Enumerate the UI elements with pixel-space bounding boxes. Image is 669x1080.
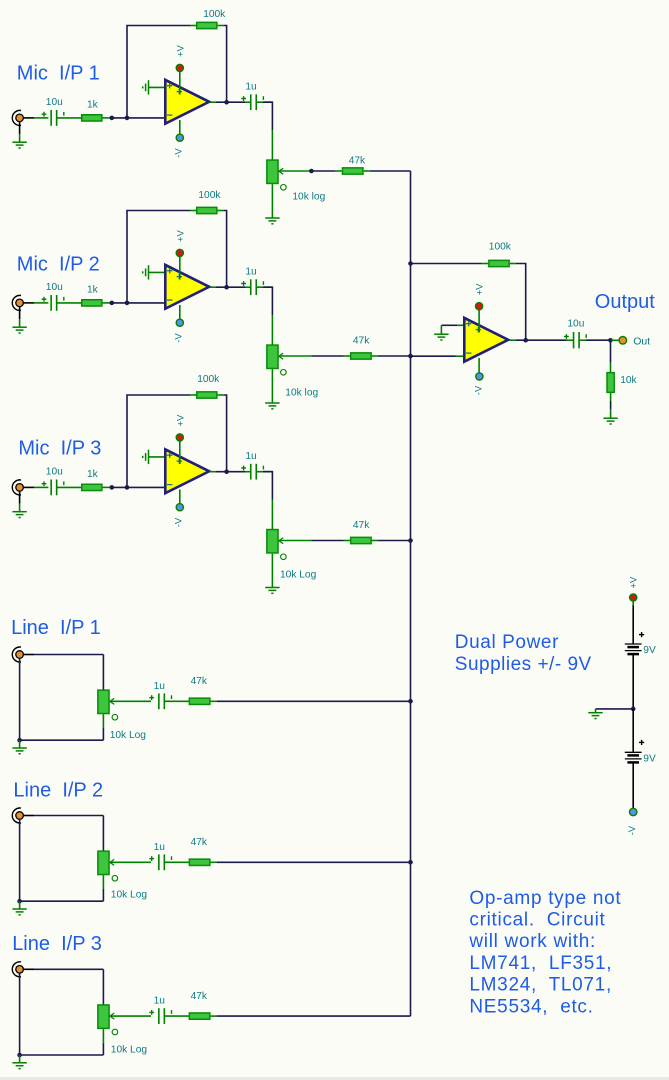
svg-text:100k: 100k: [203, 9, 226, 20]
terminal marker VR5 wiper: [112, 875, 118, 881]
wire ground stub: [19, 1055, 21, 1062]
wire R2 to op-amp U2 inverting input: [103, 302, 112, 304]
wire feedback right side to output: [218, 25, 224, 27]
label battery B2 polarity +: [639, 741, 644, 743]
junction dot bus / output feedback: [408, 261, 413, 266]
junction dot U1 output / feedback: [224, 100, 229, 105]
svg-text:critical. Circuit: critical. Circuit: [469, 910, 605, 931]
wire R14 to ground: [610, 393, 612, 401]
svg-text:1k: 1k: [87, 469, 99, 480]
wire ground to U4 non-inverting input: [441, 324, 457, 326]
wire -V supply from U1: [179, 120, 181, 138]
wire VR4 wiper to C7: [110, 700, 151, 702]
connector J3 mic input jack: [12, 480, 21, 495]
wire -V supply from U4: [478, 358, 480, 376]
svg-text:47k: 47k: [191, 676, 208, 687]
svg-text:-V: -V: [474, 385, 485, 395]
connector Out: [619, 337, 627, 345]
capacitor C10 10u output: [573, 332, 575, 348]
ground R14: [603, 417, 617, 419]
wire ground stub: [19, 740, 21, 747]
wire VR3 wiper to R6: [279, 540, 312, 542]
power +V terminal U3: [176, 434, 183, 441]
junction dot on inverting node: [110, 485, 115, 490]
terminal marker VR1 wiper: [281, 185, 287, 191]
wire R7 to mix bus: [211, 700, 217, 702]
svg-text:1k: 1k: [87, 100, 99, 111]
wire +V supply to U1: [179, 68, 181, 95]
terminal marker VR6 wiper: [112, 1029, 118, 1035]
svg-text:10u: 10u: [46, 282, 63, 293]
power -V terminal U2: [176, 319, 183, 326]
svg-text:10u: 10u: [567, 319, 584, 330]
window edge bottom: [0, 1077, 669, 1080]
svg-text:Line I/P 3: Line I/P 3: [12, 933, 102, 955]
ground U4 non-inverting input: [434, 333, 448, 335]
capacitor C3 10u: [50, 480, 52, 496]
wire VR5 bottom to ground rail: [102, 875, 104, 889]
ground VR3: [265, 587, 279, 589]
resistor R14 10k output load: [607, 373, 614, 393]
wire C7 to R7: [164, 700, 188, 702]
junction dot on inverting node: [110, 116, 115, 121]
svg-text:+V: +V: [176, 44, 187, 57]
op-amp U4 output mixer: [464, 318, 508, 362]
ground J5: [12, 908, 26, 910]
resistor R13 100k output feedback: [489, 260, 509, 266]
junction dot jack ground: [17, 899, 22, 904]
wire R4 to mix bus: [364, 170, 370, 172]
wire VR5 wiper to C8: [110, 861, 151, 863]
connector J2 mic input jack: [12, 295, 21, 310]
resistor R3 1k: [82, 484, 102, 490]
wire to Out connector: [611, 339, 620, 341]
svg-text:Dual Power: Dual Power: [455, 632, 559, 653]
svg-text:10k Log: 10k Log: [280, 569, 317, 580]
svg-text:1k: 1k: [87, 285, 99, 296]
power +V terminal U1: [176, 64, 183, 71]
wire VR4 bottom to ground rail: [102, 714, 104, 728]
wire jack J1 to C1: [23, 117, 34, 119]
svg-text:-V: -V: [173, 517, 184, 527]
svg-text:Line I/P 1: Line I/P 1: [11, 617, 101, 639]
wire +V to battery B1: [632, 601, 634, 606]
resistor R5 47k: [351, 353, 372, 359]
wire mixing bus vertical: [410, 171, 412, 1016]
wire jack J1 ground stub: [19, 121, 21, 134]
wire ground to U3 non-inverting input: [149, 456, 167, 458]
junction dot on inverting node: [110, 301, 115, 306]
svg-text:1u: 1u: [154, 681, 165, 692]
svg-text:1u: 1u: [154, 996, 165, 1007]
wire bus to U4 inverting input: [411, 355, 456, 357]
junction dot bus line 1: [408, 699, 413, 704]
wire B2 to -V: [632, 763, 634, 808]
ground J6: [12, 1062, 26, 1064]
svg-text:+V: +V: [629, 576, 640, 589]
wire feedback loop left/top: [127, 395, 190, 487]
svg-text:10k Log: 10k Log: [110, 730, 147, 741]
junction dot bus line 2: [408, 860, 413, 865]
wire ground rail bottom: [20, 1054, 104, 1056]
wire VR2 wiper to R5: [279, 355, 312, 357]
svg-text:47k: 47k: [353, 336, 370, 347]
wire -V supply from U3: [179, 490, 181, 508]
wire R6 to mix bus: [372, 540, 378, 542]
svg-text:+V: +V: [176, 229, 187, 242]
svg-text:Line I/P 2: Line I/P 2: [13, 779, 103, 801]
wire C9 to R9: [164, 1015, 188, 1017]
svg-text:Output: Output: [595, 291, 655, 313]
terminal marker VR2 wiper: [281, 370, 287, 376]
wire C2 to R2: [57, 302, 82, 304]
wire C5 to VR2: [256, 286, 272, 288]
wire jack J4 down to ground rail: [19, 658, 21, 740]
ground VR2: [265, 402, 279, 404]
potentiometer VR4 10k: [98, 690, 109, 713]
svg-text:10k log: 10k log: [285, 388, 318, 399]
capacitor C8 1u: [158, 854, 160, 870]
wire output node to R14: [610, 340, 612, 362]
connector J4 line input jack: [12, 647, 21, 662]
resistor R2 1k: [82, 300, 102, 306]
svg-text:10k: 10k: [620, 375, 637, 386]
potentiometer VR1 10k: [267, 160, 278, 183]
ground op-amp U1 non-inverting input: [148, 80, 150, 94]
resistor R2 100k feedback: [197, 207, 217, 213]
svg-text:+V: +V: [176, 414, 187, 427]
wire C10 to Out: [579, 339, 586, 341]
junction dot jack ground: [17, 1053, 22, 1058]
junction dot bus mic 2: [408, 354, 413, 359]
capacitor C1 1u: [250, 94, 252, 110]
svg-text:NE5534, etc.: NE5534, etc.: [469, 996, 593, 1017]
wire +V supply to U2: [179, 253, 181, 280]
wire R5 to mix bus: [372, 355, 378, 357]
svg-text:47k: 47k: [191, 837, 208, 848]
svg-text:100k: 100k: [489, 241, 512, 252]
power +V rail terminal: [630, 594, 637, 601]
svg-text:LM324, TL071,: LM324, TL071,: [469, 975, 612, 996]
svg-text:47k: 47k: [191, 991, 208, 1002]
power +V terminal U4: [476, 303, 483, 310]
junction dot output node: [608, 338, 613, 343]
junction dot U2 output / feedback: [224, 285, 229, 290]
svg-text:+V: +V: [475, 283, 486, 296]
wire ground rail bottom: [20, 739, 104, 741]
connector J1 mic input jack: [12, 110, 21, 125]
wire centre tap to ground: [596, 708, 634, 710]
svg-text:-V: -V: [627, 825, 638, 835]
ground jack J3: [12, 511, 26, 513]
svg-text:10k Log: 10k Log: [111, 1044, 148, 1055]
resistor R8 47k: [189, 859, 210, 865]
wire jack J5 to VR5 top: [23, 815, 34, 817]
wire jack J5 down to ground rail: [19, 819, 21, 901]
capacitor C7 1u: [158, 693, 160, 709]
wire ground stub: [19, 901, 21, 908]
power -V rail terminal: [630, 808, 637, 815]
svg-text:9V: 9V: [643, 645, 656, 656]
power -V terminal U4: [476, 373, 483, 380]
wire jack J3 ground stub: [19, 491, 21, 504]
resistor R9 47k: [189, 1013, 210, 1019]
wire feedback to output node: [510, 263, 516, 265]
wire jack J3 to C3: [23, 486, 34, 488]
junction dot U4 output / feedback: [523, 338, 528, 343]
svg-text:LM741, LF351,: LM741, LF351,: [469, 953, 612, 974]
svg-text:10u: 10u: [46, 467, 63, 478]
junction dot supply centre tap: [631, 707, 636, 712]
op-amp U2: [165, 265, 209, 309]
resistor R7 47k: [189, 698, 210, 704]
svg-text:Op-amp type not: Op-amp type not: [469, 888, 621, 909]
junction dot jack ground: [17, 738, 22, 743]
wire R9 to mix bus: [211, 1015, 217, 1017]
wire feedback right side to output: [218, 210, 224, 212]
junction dot wiper wire: [309, 169, 314, 174]
svg-text:9V: 9V: [643, 753, 656, 764]
svg-text:Supplies +/- 9V: Supplies +/- 9V: [455, 654, 592, 675]
ground J4: [12, 747, 26, 749]
wire U1 output to C4: [210, 101, 216, 103]
junction dot U3 output / feedback: [224, 469, 229, 474]
wire U2 output to C5: [210, 286, 216, 288]
capacitor C3 1u: [250, 464, 252, 480]
wire feedback loop left/top: [127, 211, 190, 303]
junction dot bus mic 3: [408, 538, 413, 543]
svg-text:Mic I/P 1: Mic I/P 1: [17, 63, 100, 85]
resistor R1 1k: [82, 115, 102, 121]
terminal marker VR4 wiper: [112, 714, 118, 720]
wire R3 to op-amp U3 inverting input: [103, 486, 112, 488]
potentiometer VR5 10k: [98, 851, 109, 874]
ground op-amp U2 non-inverting input: [148, 265, 150, 279]
junction dot feedback connection: [125, 301, 130, 306]
connector J6 line input jack: [12, 962, 21, 977]
wire C6 to VR3: [256, 471, 272, 473]
wire feedback right side to output: [218, 394, 224, 396]
terminal marker VR3 wiper: [281, 554, 287, 560]
op-amp U1: [165, 80, 209, 124]
svg-text:1u: 1u: [245, 267, 256, 278]
potentiometer VR6 10k: [98, 1005, 109, 1028]
resistor R6 47k: [351, 537, 372, 543]
wire R8 to mix bus: [211, 861, 217, 863]
capacitor C9 1u: [158, 1008, 160, 1024]
op-amp U3: [165, 449, 209, 493]
wire ground to U2 non-inverting input: [149, 271, 167, 273]
svg-text:47k: 47k: [349, 156, 366, 167]
wire jack J2 to C2: [23, 302, 34, 304]
svg-text:10k log: 10k log: [292, 192, 325, 203]
ground VR1: [265, 217, 279, 219]
junction dot feedback connection: [125, 485, 130, 490]
wire output feedback top: [411, 263, 482, 265]
power -V terminal U1: [176, 134, 183, 141]
wire ground to U1 non-inverting input: [149, 86, 167, 88]
wire C1 to R1: [57, 117, 82, 119]
potentiometer VR2 10k: [267, 345, 278, 368]
resistor R4 47k: [342, 168, 363, 174]
label battery B1 polarity +: [639, 634, 644, 636]
svg-text:1u: 1u: [245, 451, 256, 462]
wire C3 to R3: [57, 486, 82, 488]
wire VR6 wiper to C9: [110, 1015, 151, 1017]
wire VR2 bottom to ground: [271, 369, 273, 403]
capacitor C2 1u: [250, 279, 252, 295]
svg-text:10k Log: 10k Log: [111, 890, 148, 901]
wire R1 to op-amp U1 inverting input: [103, 117, 112, 119]
wire VR1 bottom to ground: [271, 184, 273, 218]
svg-text:Out: Out: [633, 336, 650, 348]
wire +V supply to U4: [478, 306, 480, 332]
svg-text:1u: 1u: [154, 842, 165, 853]
wire VR1 wiper to R4: [279, 170, 312, 172]
ground supply centre: [588, 712, 602, 714]
potentiometer VR3 10k: [267, 530, 278, 553]
wire -V supply from U2: [179, 305, 181, 323]
wire jack J6 down to ground rail: [19, 973, 21, 1055]
svg-text:Mic I/P 2: Mic I/P 2: [17, 253, 100, 275]
ground op-amp U3 non-inverting input: [148, 450, 150, 464]
ground jack J1: [12, 141, 26, 143]
svg-text:-V: -V: [173, 148, 184, 158]
battery B1 9V: [625, 643, 642, 645]
wire B1 to centre tap: [632, 655, 634, 709]
capacitor C1 10u: [50, 110, 52, 126]
wire ground rail bottom: [20, 900, 104, 902]
wire C4 to VR1: [256, 101, 272, 103]
wire jack J4 to VR4 top: [23, 654, 34, 656]
wire jack J2 ground stub: [19, 306, 21, 319]
connector J5 line input jack: [12, 808, 21, 823]
battery B2 9V: [625, 751, 642, 753]
svg-text:1u: 1u: [245, 82, 256, 93]
svg-text:-V: -V: [173, 333, 184, 343]
wire VR3 bottom to ground: [271, 554, 273, 588]
svg-text:100k: 100k: [197, 374, 220, 385]
wire feedback loop left/top: [127, 26, 190, 118]
wire C8 to R8: [164, 861, 188, 863]
power +V terminal U2: [176, 249, 183, 256]
wire VR6 bottom to ground rail: [102, 1029, 104, 1043]
wire U4 output to C10: [509, 339, 516, 341]
junction dot feedback connection: [125, 116, 130, 121]
wire jack J6 to VR6 top: [23, 968, 34, 970]
svg-text:will work with:: will work with:: [468, 931, 596, 952]
capacitor C2 10u: [50, 295, 52, 311]
wire U3 output to C6: [210, 471, 216, 473]
svg-text:100k: 100k: [198, 190, 221, 201]
wire +V supply to U3: [179, 437, 181, 464]
svg-text:47k: 47k: [353, 520, 370, 531]
resistor R3 100k feedback: [197, 392, 217, 398]
wire centre tap to battery B2: [632, 709, 634, 752]
resistor R1 100k feedback: [197, 22, 217, 28]
power -V terminal U3: [176, 504, 183, 511]
ground jack J2: [12, 326, 26, 328]
svg-text:10u: 10u: [46, 97, 63, 108]
svg-text:Mic I/P 3: Mic I/P 3: [18, 438, 101, 460]
